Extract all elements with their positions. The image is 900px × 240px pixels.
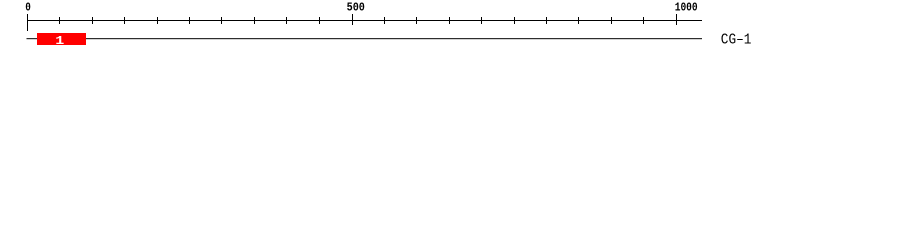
major tick 500 (352, 14, 353, 25)
svg-text:1000: 1000 (675, 1, 698, 15)
minor ticks every 50 units (59, 17, 644, 24)
svg-text:500: 500 (347, 1, 365, 15)
ruler base bar at position 0 (27, 14, 28, 31)
svg-text:CG–1: CG–1 (721, 33, 752, 49)
feature box (red) (37, 33, 86, 45)
feature track line (27, 38, 703, 39)
background (0, 0, 900, 58)
major tick 1000 (676, 14, 677, 25)
ruler main line (27, 20, 702, 21)
svg-text:0: 0 (25, 1, 31, 15)
svg-text:1: 1 (55, 34, 64, 48)
